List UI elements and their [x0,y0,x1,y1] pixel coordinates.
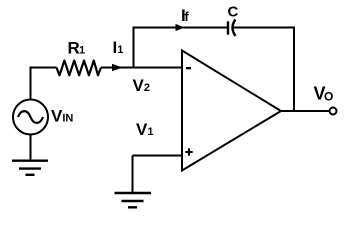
wire [101,67,182,69]
wire [30,135,32,161]
arrow I1 [112,64,123,71]
wire [132,156,134,194]
plus input symbol [185,148,192,155]
capacitor C [228,20,236,37]
resistor R1 [57,61,102,76]
op-amp U1 [182,51,281,171]
svg-text:C: C [228,4,239,21]
wire [134,28,228,68]
wire [233,28,294,112]
wire [31,68,57,101]
terminal VO [330,108,337,115]
ground [115,193,152,207]
wire [281,110,330,112]
voltage source VIN [13,100,48,135]
ground [12,161,48,175]
minus input symbol [186,67,191,69]
wire [133,155,183,157]
arrow If [176,24,185,31]
